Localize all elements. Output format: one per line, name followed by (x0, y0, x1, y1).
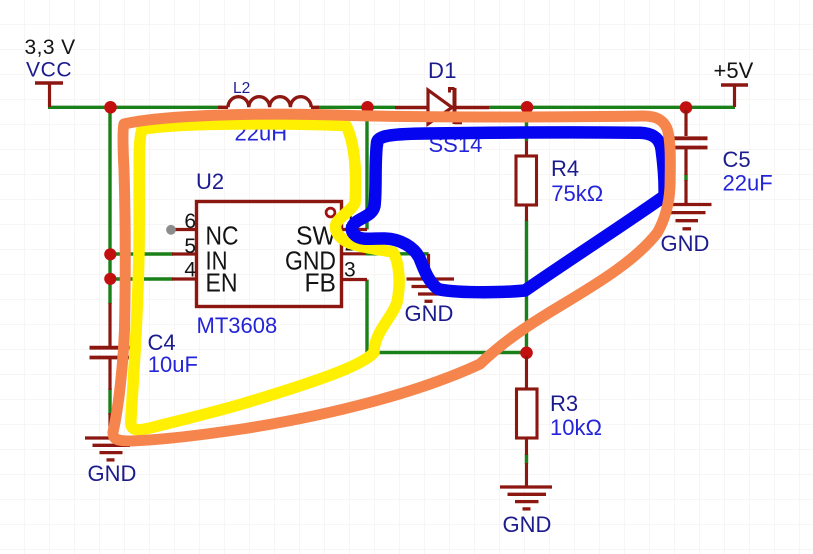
highlight loop blue (352, 132, 665, 292)
wire: R4 bottom to divider node (525, 220, 528, 353)
svg-text:5: 5 (184, 235, 196, 258)
wire: left rail down from node (108, 107, 111, 304)
node: junction at C5 (680, 101, 693, 114)
pin 1 stub (SW) (343, 228, 367, 231)
wire: node to R4 top (525, 107, 528, 141)
ground under R3 (500, 487, 552, 509)
power symbol VCC (35, 83, 63, 107)
wire: L2 to D1 anode (317, 106, 395, 109)
wire: FB net horizontal to divider node (367, 351, 527, 354)
svg-text:GND: GND (405, 301, 454, 326)
inductor L2 (218, 97, 319, 108)
wire: below C5 (684, 174, 687, 181)
node: junction IN (104, 248, 116, 260)
wire: GND pin drop red (427, 254, 430, 278)
wire: below C4 (108, 388, 111, 415)
ground under C4 (85, 438, 137, 460)
node: junction at SW drop (361, 101, 374, 114)
svg-text:D1: D1 (428, 58, 457, 83)
pin-1 marker circle (326, 208, 335, 217)
capacitor C5 (666, 110, 708, 204)
svg-text:10uF: 10uF (148, 352, 198, 377)
pin 2 stub (GND) (343, 252, 366, 255)
capacitor C4 (90, 303, 132, 438)
svg-text:GND: GND (661, 231, 710, 256)
pin 5 stub (IN) (172, 252, 195, 255)
wire: D1 cathode to +5V (489, 106, 735, 109)
svg-text:+5V: +5V (714, 58, 754, 83)
svg-text:U2: U2 (196, 169, 224, 194)
wire: SW net vertical (365, 107, 368, 230)
ground at U2 GND pin (407, 279, 455, 301)
pin 3 stub (FB) (343, 278, 367, 281)
wire: GND pin to ground drop (366, 252, 429, 255)
op-amp U2 box (MT3608) (197, 202, 342, 307)
diode D1 (395, 88, 489, 124)
svg-text:GND: GND (88, 461, 137, 486)
power symbol +5V (721, 85, 748, 107)
pin 4 stub (EN) (172, 277, 195, 280)
svg-text:6: 6 (184, 210, 196, 233)
node: junction EN (104, 273, 116, 285)
highlight loop yellow (131, 124, 399, 430)
wire: FB net vertical (365, 280, 368, 353)
wire: IN pin wire (110, 252, 173, 255)
svg-text:R3: R3 (550, 391, 578, 416)
node: junction FB divider (520, 347, 533, 360)
svg-text:EN: EN (206, 268, 238, 298)
svg-text:75kΩ: 75kΩ (551, 181, 603, 206)
svg-text:4: 4 (184, 259, 196, 282)
wire: top rail VCC to L2 (48, 106, 222, 109)
wire: below R3 (525, 454, 528, 464)
svg-text:VCC: VCC (26, 59, 72, 82)
wire: EN pin wire (110, 277, 173, 280)
resistor R4 (516, 141, 537, 221)
node: junction at VCC rail x110 (104, 101, 117, 114)
svg-text:R4: R4 (551, 156, 579, 181)
node: junction at R4 top (521, 101, 534, 114)
svg-text:22uF: 22uF (723, 170, 773, 195)
svg-text:3: 3 (344, 259, 356, 282)
highlight loop orange (113, 114, 670, 441)
svg-text:3,3 V: 3,3 V (25, 36, 76, 59)
resistor R3 (517, 356, 538, 487)
svg-text:C5: C5 (723, 147, 751, 172)
pin 6 no-connect dot (166, 225, 176, 235)
svg-text:GND: GND (503, 512, 552, 537)
svg-text:MT3608: MT3608 (197, 313, 278, 338)
ground under C5 (661, 205, 712, 229)
pin 6 stub (NC) (171, 228, 195, 231)
svg-text:FB: FB (305, 268, 337, 298)
svg-text:L2: L2 (233, 80, 250, 97)
svg-text:10kΩ: 10kΩ (550, 415, 602, 440)
